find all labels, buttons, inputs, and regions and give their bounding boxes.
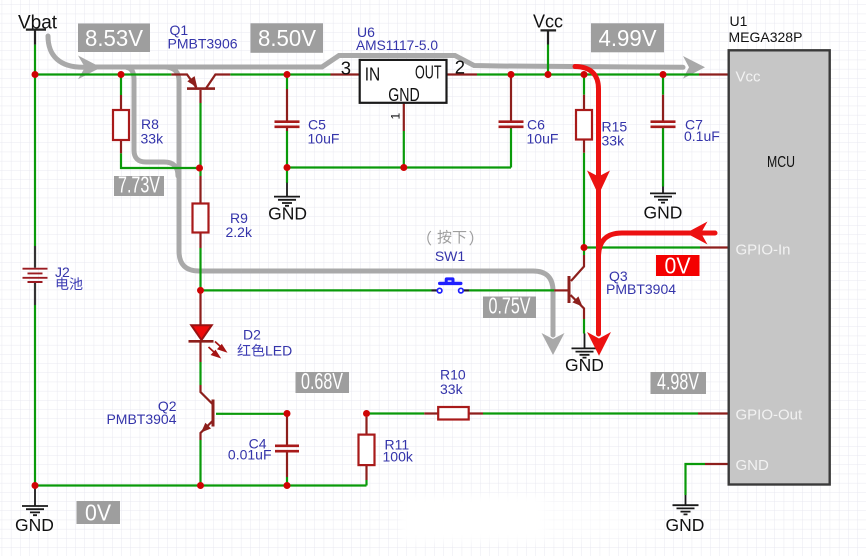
- svg-text:0.68V: 0.68V: [301, 368, 343, 394]
- svg-text:2: 2: [455, 57, 465, 78]
- svg-text:PMBT3904: PMBT3904: [606, 281, 676, 297]
- svg-text:D2: D2: [243, 327, 261, 343]
- svg-text:3: 3: [341, 58, 351, 79]
- svg-text:PMBT3904: PMBT3904: [106, 411, 176, 427]
- svg-text:0.75V: 0.75V: [489, 293, 531, 319]
- svg-text:1: 1: [389, 113, 403, 120]
- svg-text:MCU: MCU: [767, 154, 795, 171]
- svg-text:Vcc: Vcc: [736, 69, 762, 86]
- svg-text:GND: GND: [736, 457, 770, 474]
- svg-text:GND: GND: [644, 203, 683, 223]
- svg-text:GND: GND: [565, 355, 604, 375]
- svg-text:2.2k: 2.2k: [226, 224, 253, 240]
- svg-text:U1: U1: [730, 13, 748, 29]
- svg-text:10uF: 10uF: [527, 131, 559, 147]
- svg-text:SW1: SW1: [435, 248, 466, 264]
- svg-text:GND: GND: [666, 515, 705, 535]
- svg-text:100k: 100k: [383, 449, 414, 465]
- svg-text:0V: 0V: [85, 500, 112, 526]
- svg-text:GPIO-In: GPIO-In: [736, 242, 791, 259]
- svg-text:MEGA328P: MEGA328P: [729, 29, 803, 45]
- svg-text:4.98V: 4.98V: [657, 368, 699, 394]
- svg-text:AMS1117-5.0: AMS1117-5.0: [356, 37, 438, 53]
- svg-text:J2: J2: [55, 264, 70, 280]
- svg-text:10uF: 10uF: [308, 131, 340, 147]
- svg-text:33k: 33k: [141, 131, 165, 147]
- svg-text:33k: 33k: [440, 381, 464, 397]
- svg-text:GND: GND: [268, 203, 307, 223]
- svg-text:Vcc: Vcc: [533, 12, 563, 32]
- svg-text:OUT: OUT: [415, 62, 442, 83]
- svg-text:33k: 33k: [602, 133, 626, 149]
- svg-text:4.99V: 4.99V: [599, 25, 658, 51]
- svg-text:0.01uF: 0.01uF: [228, 447, 272, 463]
- svg-text:GPIO-Out: GPIO-Out: [736, 407, 804, 424]
- svg-text:Vbat: Vbat: [18, 13, 58, 34]
- svg-text:PMBT3906: PMBT3906: [168, 36, 238, 52]
- svg-text:8.50V: 8.50V: [258, 25, 317, 51]
- svg-text:GND: GND: [388, 84, 420, 105]
- svg-text:IN: IN: [365, 64, 381, 85]
- svg-text:LED: LED: [265, 343, 292, 359]
- svg-text:0V: 0V: [665, 253, 692, 279]
- svg-text:8.53V: 8.53V: [85, 25, 144, 51]
- svg-text:7.73V: 7.73V: [118, 171, 160, 197]
- svg-text:GND: GND: [15, 515, 54, 535]
- svg-text:0.1uF: 0.1uF: [684, 128, 720, 144]
